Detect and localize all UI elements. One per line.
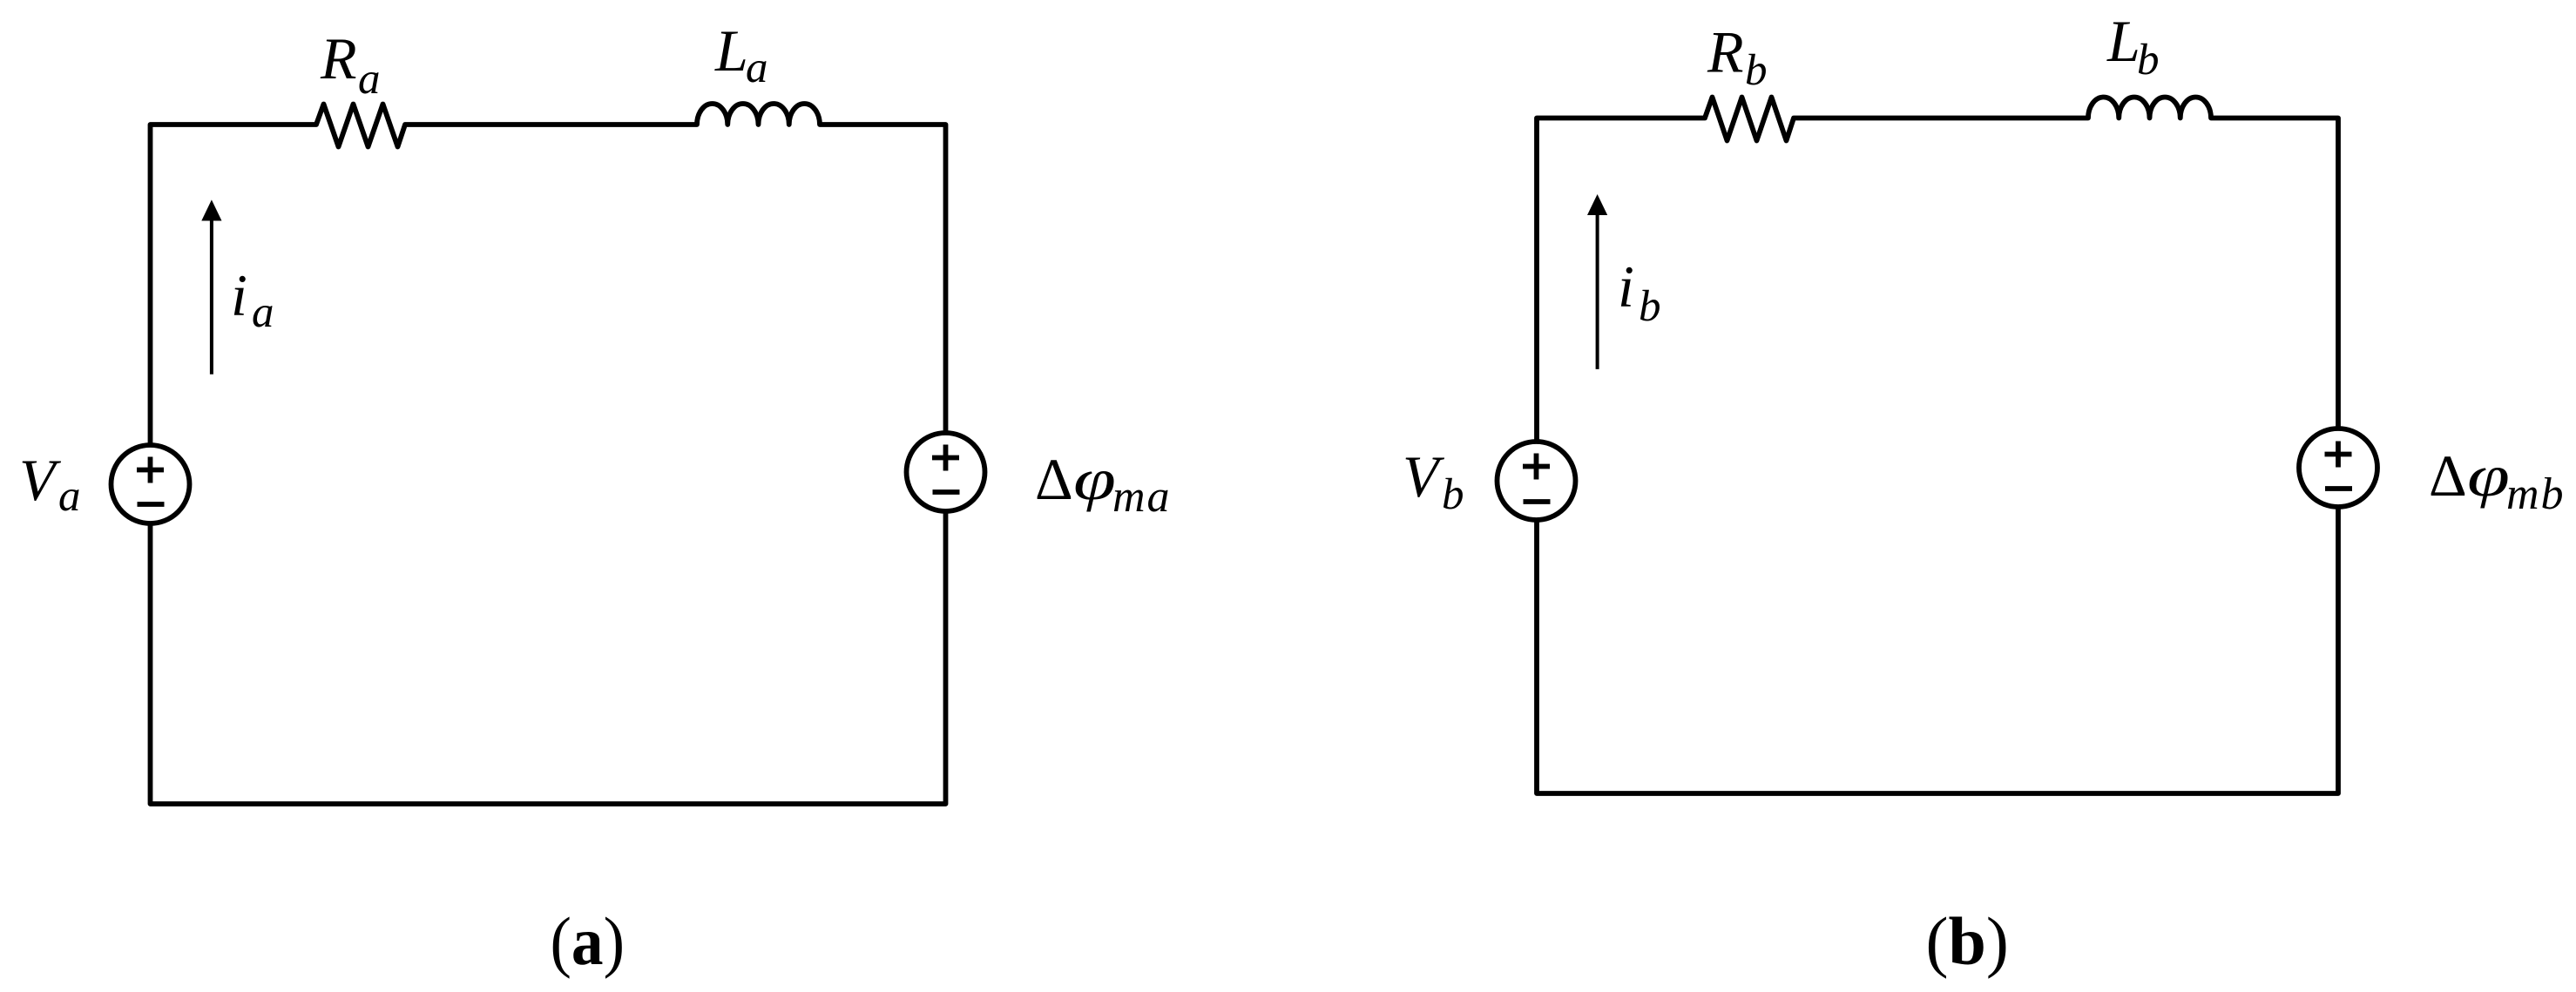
- svg-text:L: L: [2106, 8, 2140, 74]
- svg-text:a: a: [746, 44, 768, 92]
- svg-text:Δ: Δ: [1035, 446, 1073, 512]
- svg-text:a: a: [58, 472, 81, 521]
- svg-text:φ: φ: [2467, 444, 2510, 509]
- svg-text:mb: mb: [2506, 469, 2566, 519]
- svg-text:R: R: [1707, 19, 1744, 85]
- svg-text:L: L: [714, 17, 748, 84]
- svg-text:b: b: [1639, 282, 1661, 331]
- svg-text:b: b: [1745, 46, 1768, 95]
- svg-text:i: i: [1618, 253, 1634, 320]
- svg-text:(a): (a): [551, 905, 625, 980]
- svg-text:b: b: [1442, 470, 1464, 519]
- svg-text:R: R: [320, 25, 357, 91]
- svg-text:i: i: [231, 262, 247, 328]
- svg-text:b: b: [2137, 36, 2160, 84]
- svg-text:a: a: [358, 55, 381, 104]
- svg-text:ma: ma: [1112, 472, 1172, 522]
- svg-text:a: a: [252, 288, 274, 337]
- svg-text:(b): (b): [1926, 903, 2009, 979]
- svg-text:φ: φ: [1073, 448, 1116, 513]
- svg-text:Δ: Δ: [2429, 442, 2467, 509]
